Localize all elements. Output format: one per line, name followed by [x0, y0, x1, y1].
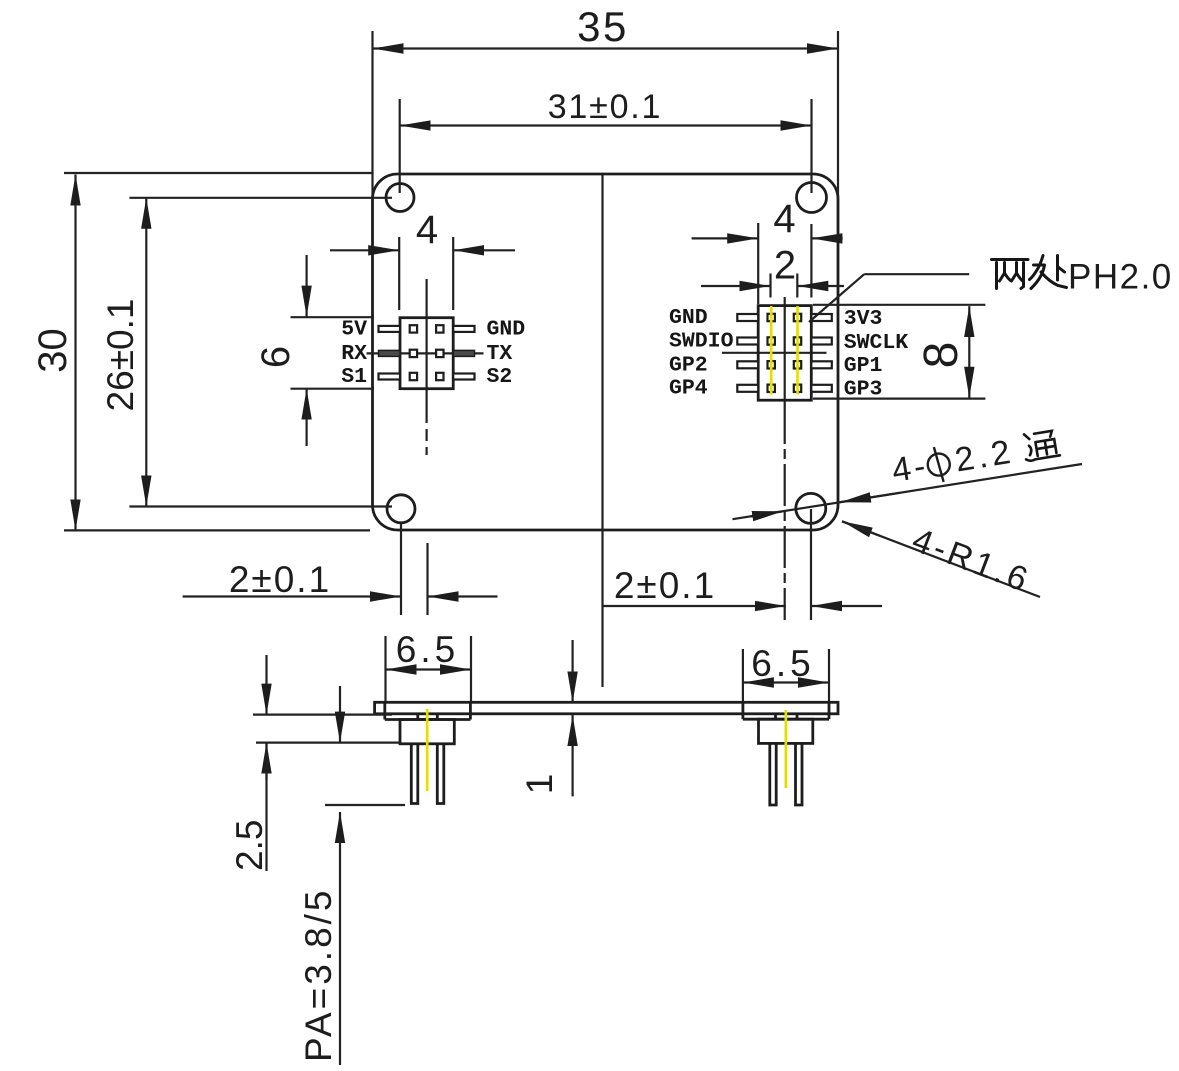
J2 pin lead right row4 — [811, 385, 832, 392]
svg-text:2: 2 — [774, 244, 796, 288]
ext line pin bottom (left) — [325, 804, 405, 806]
dim 2±0.1 right arrow right — [811, 605, 882, 607]
J2 pin square c1r4 — [768, 385, 775, 392]
J1 side flange bottom — [385, 718, 471, 721]
J2 pin square c2r1 — [794, 314, 801, 321]
dim 31 dimension line — [400, 124, 812, 126]
svg-text:1: 1 — [519, 774, 560, 795]
dim 1 arrow bottom — [571, 715, 573, 796]
svg-text:2.2: 2.2 — [952, 432, 1017, 479]
J2 side yellow center line — [784, 710, 787, 788]
dim 4 extension line right (J2 hole center) — [810, 224, 812, 298]
J2 horizontal center line — [722, 352, 827, 354]
svg-text:4: 4 — [773, 197, 795, 241]
dim 4 arrow right (J2) — [811, 237, 842, 239]
J1 side pin 2 — [437, 744, 444, 804]
J2 yellow pin column line right — [796, 306, 799, 395]
J1 body — [400, 318, 453, 389]
ext line hole BR center — [810, 509, 812, 620]
svg-text:35: 35 — [577, 3, 629, 50]
J1 vertical center line — [426, 279, 428, 390]
PCB bar side view — [375, 702, 838, 714]
dim 2 arrow right (J2) — [797, 285, 844, 287]
ext line hole BL center — [400, 523, 402, 615]
leader arrow outer (hole right) — [840, 493, 900, 502]
dim 6.5 left dimension line — [386, 668, 472, 670]
dim 2±0.1 right arrow left — [603, 605, 786, 607]
J1 pin lead right row2 (filled) — [453, 350, 474, 356]
J1 pin lead left row2 (filled) — [379, 350, 401, 356]
J2 pin lead right row3 — [811, 361, 832, 368]
J1 pin lead left row1 — [379, 326, 401, 332]
note text PH2.0 (两处PH2.0) — [992, 256, 1067, 289]
dim 31 extension line left — [399, 99, 401, 193]
J1 pin lead right row3 — [453, 374, 474, 380]
dim 4 arrow right (J1) — [453, 249, 515, 251]
J2 side pin 2 — [796, 743, 803, 805]
dim 2 arrow left (J2) — [701, 285, 771, 287]
dim 2.5 arrow bottom — [265, 743, 267, 780]
svg-text:6: 6 — [254, 346, 298, 368]
J2 pin lead right row2 — [811, 338, 832, 345]
dim 2.5 line below — [265, 743, 267, 871]
dim 4 extension line right (J1) — [452, 237, 454, 310]
dim 2 extension line left (J2) — [769, 274, 771, 298]
hanzi 处 — [1030, 256, 1067, 289]
J1 pin square c1r3 — [410, 373, 417, 380]
dim 4 extension line left (J2) — [757, 223, 759, 304]
dim 6 extension line bottom — [291, 388, 375, 390]
dim 6.5 right extension right — [828, 649, 830, 702]
svg-text:31±0.1: 31±0.1 — [548, 88, 663, 126]
J2 pin square c1r1 — [768, 314, 775, 321]
dim 30 extension line bottom — [64, 529, 370, 531]
J2 side flange notch stubs — [774, 714, 777, 719]
mounting hole top-left — [386, 184, 414, 212]
J1 side flange left edge — [383, 702, 386, 719]
J2 pin square c2r4 — [794, 385, 801, 392]
phi symbol — [926, 452, 951, 477]
J1 side housing — [400, 720, 454, 744]
svg-text:GND: GND — [487, 318, 526, 342]
svg-text:PA=3.8/5: PA=3.8/5 — [298, 887, 339, 1062]
dim 31 extension line right — [810, 99, 812, 193]
dim 30 dimension line — [74, 175, 76, 531]
ext line housing bottom (left) — [256, 741, 400, 743]
dim 4 extension line left (J1) — [398, 237, 400, 310]
J1 side flange right edge — [469, 702, 472, 719]
mounting hole top-right — [797, 183, 827, 213]
J2 pin square c1r2 — [768, 337, 775, 344]
dim 2±0.1 left arrow right — [428, 595, 498, 597]
J2 side flange left edge — [742, 702, 745, 719]
svg-text:2±0.1: 2±0.1 — [229, 559, 331, 600]
J2 vertical center line — [784, 297, 786, 402]
leader arrow inner (hole left) — [750, 511, 783, 516]
svg-text:3V3: 3V3 — [844, 307, 883, 331]
svg-text:2±0.1: 2±0.1 — [614, 565, 716, 606]
mounting hole bottom-left — [387, 495, 415, 523]
dim 6.5 right dimension line — [743, 681, 829, 683]
hanzi 两 — [992, 260, 1029, 289]
J1 side pin 1 — [411, 744, 418, 804]
dim 2 extension line right (J2) — [796, 274, 798, 298]
svg-text:SWCLK: SWCLK — [844, 331, 909, 355]
J2 pin square c2r3 — [794, 361, 801, 368]
J1 side flange notch stubs — [416, 714, 419, 720]
J2 pin lead right row1 — [811, 314, 832, 321]
svg-text:30: 30 — [31, 328, 75, 373]
svg-text:6.5: 6.5 — [396, 629, 459, 670]
svg-text:GP1: GP1 — [844, 354, 883, 378]
dim 26 dimension line — [145, 198, 147, 507]
svg-text:4-R1.6: 4-R1.6 — [907, 521, 1036, 600]
J1 pin square c2r3 — [436, 373, 443, 380]
J1 pin square c2r2 — [436, 350, 443, 357]
dim 2.5 arrow top — [265, 655, 267, 715]
svg-text:2.5: 2.5 — [229, 820, 270, 871]
svg-text:GP2: GP2 — [669, 353, 708, 377]
J2 pin lead left row4 — [737, 385, 758, 392]
dim 8 extension line top — [813, 304, 985, 306]
dim 2±0.1 left arrow left — [183, 595, 401, 597]
dim 35 extension line right — [837, 31, 839, 200]
dim 35 extension line left — [371, 31, 373, 200]
dim 35 dimension line — [373, 47, 839, 49]
J2 center line extension (dashed) — [784, 402, 786, 620]
dim 30 extension line top — [64, 172, 372, 174]
board outline (top view PCB 35x30) — [373, 174, 839, 530]
leader line diagonal (PH2.0 callout) — [809, 274, 864, 322]
J2 side flange bottom — [743, 718, 829, 721]
svg-text:GP4: GP4 — [669, 377, 708, 401]
svg-text:S1: S1 — [341, 365, 367, 389]
J2 yellow pin column line left — [770, 306, 773, 395]
dim 6 arrow bottom — [306, 389, 308, 446]
dim PA arrow bottom — [339, 812, 341, 1065]
leader line corner callout 4-R1.6 — [842, 521, 880, 536]
J2 pin square c1r3 — [768, 361, 775, 368]
J2 pin lead left row1 — [737, 314, 758, 321]
J2 side flange right edge — [828, 702, 831, 719]
dim PA arrow top — [339, 686, 341, 743]
svg-text:SWDIO: SWDIO — [669, 330, 734, 354]
J1 pin square c1r1 — [410, 325, 417, 332]
svg-text:GND: GND — [669, 306, 708, 330]
J2 side housing — [759, 719, 813, 743]
dim 6.5 left extension right — [470, 636, 472, 702]
svg-text:8: 8 — [915, 342, 968, 369]
J1 horizontal center line through middle row — [367, 352, 484, 354]
dim 4 arrow left (J1) — [330, 249, 399, 251]
svg-text:26±0.1: 26±0.1 — [100, 299, 141, 412]
center divider line between views — [601, 174, 603, 687]
note text 4-phi2.2 through — [889, 425, 1061, 490]
dim 6.5 right extension left — [742, 649, 744, 702]
svg-text:PH2.0: PH2.0 — [1068, 258, 1173, 297]
dim 6 arrow top — [306, 255, 308, 317]
svg-text:TX: TX — [487, 342, 513, 366]
dim 1 arrow top — [571, 640, 573, 703]
dim 26 extension line top — [129, 197, 392, 199]
J1 pin lead left row3 — [379, 374, 401, 380]
svg-text:RX: RX — [341, 342, 367, 366]
dim 8 extension line bottom — [813, 398, 985, 400]
J2 body — [758, 306, 811, 401]
dim 6.5 left extension left — [384, 636, 386, 702]
leader line horizontal (PH2.0 callout) — [864, 273, 969, 275]
dim 26 extension line bottom — [129, 505, 392, 507]
leader line hole callout 4-phi2.2 — [733, 464, 1083, 519]
svg-text:6.5: 6.5 — [751, 643, 814, 684]
hanzi 通 — [1022, 429, 1060, 461]
svg-text:S2: S2 — [487, 365, 513, 389]
mounting hole bottom-right — [796, 493, 826, 523]
J1 side yellow center line — [426, 709, 429, 791]
svg-text:4: 4 — [416, 208, 438, 252]
dim 8 dimension line — [968, 306, 970, 398]
dim 6 extension line top — [291, 316, 375, 318]
J1 pin square c2r1 — [436, 325, 443, 332]
J2 pin lead left row3 — [737, 361, 758, 368]
svg-text:5V: 5V — [341, 318, 367, 342]
ext line J1 center — [426, 543, 428, 615]
svg-text:4-: 4- — [889, 447, 931, 490]
J2 side pin 1 — [770, 743, 776, 805]
ext line bar bottom (left) — [253, 713, 392, 715]
J2 pin lead left row2 — [737, 338, 758, 345]
J1 pin lead right row1 — [453, 326, 474, 332]
J2 pin square c2r2 — [794, 337, 801, 344]
J1 pin square c1r2 — [410, 350, 417, 357]
dim 4 arrow left (J2) — [692, 237, 759, 239]
